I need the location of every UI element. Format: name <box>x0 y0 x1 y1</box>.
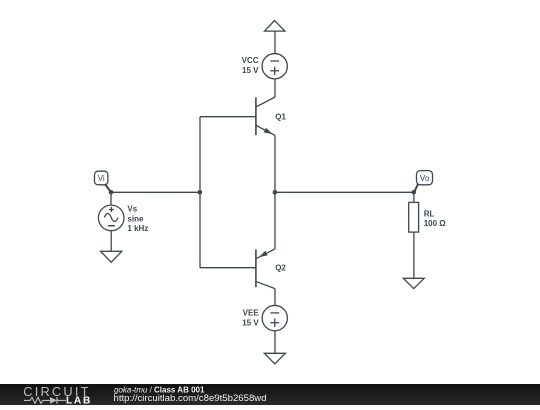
power symbol VCC rail <box>265 21 285 32</box>
svg-text:Q1: Q1 <box>275 112 286 121</box>
svg-text:Q2: Q2 <box>275 264 286 273</box>
wire <box>274 135 276 192</box>
resistor RL <box>409 202 419 232</box>
wire <box>274 79 276 97</box>
ground (RL branch) <box>403 278 424 288</box>
svg-text:Vo: Vo <box>420 174 430 183</box>
voltage source Vs (sine) <box>98 205 124 231</box>
svg-text:15 V: 15 V <box>242 66 259 75</box>
wire <box>413 192 415 202</box>
svg-text:15 V: 15 V <box>242 319 259 328</box>
svg-text:1 kHz: 1 kHz <box>127 224 148 233</box>
wire <box>413 232 415 278</box>
svg-text:Vi: Vi <box>98 174 105 183</box>
svg-text:sine: sine <box>127 214 144 223</box>
svg-text:VCC: VCC <box>242 56 259 65</box>
svg-text:Vs: Vs <box>127 205 137 214</box>
junction node (output) <box>412 190 417 195</box>
ground (input branch) <box>101 251 122 262</box>
voltage source V2 (VCC) <box>262 54 287 79</box>
wire (input to bases) <box>111 191 200 193</box>
wire (emitters to output) <box>275 191 414 193</box>
node Vi flag <box>95 171 112 192</box>
svg-text:100 Ω: 100 Ω <box>424 219 447 228</box>
wire <box>274 331 276 354</box>
transistor Q2 (PNP) <box>256 249 275 289</box>
footer bar <box>0 384 540 405</box>
svg-text:VEE: VEE <box>243 309 260 318</box>
svg-text:RL: RL <box>424 209 435 218</box>
voltage source V3 (VEE) <box>262 305 287 330</box>
wire <box>274 31 276 53</box>
svg-text:LAB: LAB <box>66 396 92 405</box>
wire <box>274 192 276 249</box>
transistor Q1 (NPN) <box>256 97 275 135</box>
junction node (emitters) <box>273 190 278 195</box>
wire (Q2 base) <box>200 267 256 269</box>
wire <box>274 289 276 306</box>
logo resistor-diode glyph <box>24 398 66 404</box>
wire (Q1 base) <box>200 116 256 118</box>
ground (VEE branch) <box>264 353 285 364</box>
wire <box>110 192 112 205</box>
junction node (input) <box>109 190 114 195</box>
junction node (bases) <box>198 190 203 195</box>
wire (left vertical) <box>199 117 201 268</box>
node Vo flag <box>414 171 433 193</box>
wire <box>110 231 112 252</box>
svg-text:http://circuitlab.com/c8e9t5b2: http://circuitlab.com/c8e9t5b2658wd <box>114 393 267 404</box>
